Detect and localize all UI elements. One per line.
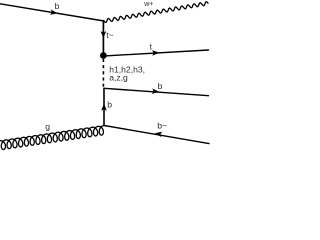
svg-text:b~: b~ [157, 121, 167, 131]
svg-text:b: b [158, 81, 163, 91]
svg-text:a,z,g: a,z,g [109, 72, 128, 82]
svg-text:b: b [55, 1, 60, 11]
svg-text:b: b [107, 100, 112, 110]
svg-text:t~: t~ [106, 30, 113, 40]
svg-text:g: g [45, 122, 50, 132]
svg-text:w+: w+ [143, 1, 153, 8]
